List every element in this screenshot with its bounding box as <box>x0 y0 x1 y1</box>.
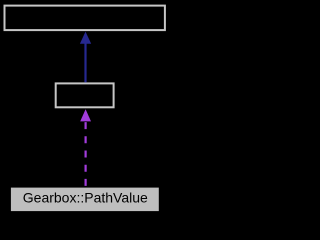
node: Gearbox::PathValue (current node, gray fill) <box>11 188 159 212</box>
inheritance arrow (solid navy, middle box to top box) <box>80 32 91 83</box>
node: top base-class box (empty) <box>5 6 165 31</box>
node: middle intermediate box (empty) <box>56 83 114 107</box>
svg-text:Gearbox::PathValue: Gearbox::PathValue <box>23 189 148 205</box>
usage arrow (dashed purple, bottom box to middle box) <box>80 109 91 187</box>
